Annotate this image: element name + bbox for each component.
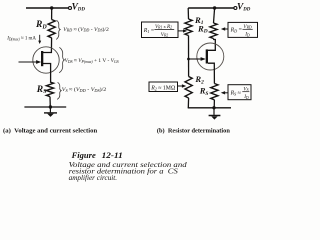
transistor Q2 source lead xyxy=(208,63,214,83)
label R1 xyxy=(194,15,204,26)
svg-text:RD: RD xyxy=(197,23,208,34)
figure caption title xyxy=(71,150,123,160)
svg-text:RS ≈: RS ≈ xyxy=(230,91,241,97)
transistor Q2 gate lead with arrow xyxy=(189,57,206,61)
wire top rail to RD (b) xyxy=(214,8,215,23)
formula box R2 xyxy=(149,82,178,92)
ground symbol (b) xyxy=(209,108,221,120)
node VDD terminal (b) xyxy=(234,7,237,10)
arrow box RD to resistor xyxy=(221,27,228,30)
svg-text:Figure: Figure xyxy=(71,150,96,160)
ground rail (a) xyxy=(24,106,66,108)
svg-text:12-11: 12-11 xyxy=(102,150,123,160)
wire R2 to bottom rail xyxy=(187,98,189,108)
formula box RD xyxy=(228,22,258,37)
arrow box R1 to resistor xyxy=(179,29,188,32)
transistor Q1 JFET circle xyxy=(33,47,59,73)
wire top rail (a) xyxy=(26,7,69,9)
label RS (b) xyxy=(199,86,209,97)
junction top rail (b) xyxy=(213,6,216,9)
node VDD terminal (a) xyxy=(69,7,72,10)
svg-text:RD =: RD = xyxy=(230,27,242,33)
label RD (b) xyxy=(197,23,208,34)
wire RD to drain xyxy=(43,38,52,53)
svg-text:RS: RS xyxy=(199,86,209,97)
junction on ground rail (a) xyxy=(49,105,52,108)
wire from top rail to RD xyxy=(51,8,53,20)
junction bottom rail (b) xyxy=(212,106,215,109)
svg-text:ID: ID xyxy=(243,94,249,100)
formula box R1 xyxy=(142,22,179,38)
resistor R2 xyxy=(185,77,192,99)
wire RS to ground rail xyxy=(49,97,51,107)
transistor Q2 JFET circle xyxy=(197,43,224,70)
svg-text:VDD: VDD xyxy=(237,2,251,12)
resistor RD (b) xyxy=(210,23,217,39)
svg-text:RD: RD xyxy=(35,20,47,30)
arrow box RS to resistor xyxy=(221,91,228,94)
label R2 xyxy=(194,74,204,85)
wire R1 to R2 xyxy=(188,36,190,77)
svg-text:ID(max) ≈ 1 mA: ID(max) ≈ 1 mA xyxy=(6,35,36,41)
svg-text:VS: VS xyxy=(243,86,248,92)
net label VDD (b) xyxy=(237,2,251,12)
svg-text:R2: R2 xyxy=(194,74,204,85)
svg-text:RS: RS xyxy=(36,85,47,95)
brace for VDS xyxy=(59,47,64,73)
resistor R1 xyxy=(185,19,192,36)
svg-text:(b) Resistor determination: (b) Resistor determination xyxy=(157,128,230,135)
transistor Q1 source lead xyxy=(43,64,51,83)
svg-text:VRD: VRD xyxy=(243,24,251,30)
svg-text:(a) Voltage and current selec: (a) Voltage and current selection xyxy=(3,128,97,135)
bottom rail (b) xyxy=(188,107,231,109)
value label VS = (VDD - VDS)/2 xyxy=(62,86,107,93)
arrow current ID direction xyxy=(38,35,41,44)
formula box RS xyxy=(228,85,251,100)
svg-text:VDD: VDD xyxy=(72,2,86,12)
figure caption body xyxy=(69,161,188,182)
brace for VS xyxy=(57,82,61,99)
value label VDS = VP(max) + 1 V - VGS xyxy=(65,58,119,64)
svg-text:VRD ≈ (VDD - VDS)/2: VRD ≈ (VDD - VDS)/2 xyxy=(63,26,109,33)
svg-text:ID: ID xyxy=(244,32,250,38)
transistor Q1 gate lead with arrow xyxy=(19,60,42,64)
junction gate on divider xyxy=(187,58,190,61)
resistor RS (b) xyxy=(211,84,218,100)
svg-text:R2 ≈ 1MΩ: R2 ≈ 1MΩ xyxy=(150,86,176,92)
label RS (a) xyxy=(36,85,47,95)
wire RS to bottom rail xyxy=(213,100,215,108)
svg-text:R1 =: R1 = xyxy=(143,28,154,34)
net label VDD (a) xyxy=(72,2,86,12)
caption (a) xyxy=(3,128,97,135)
transistor Q1 channel bar xyxy=(41,51,43,66)
resistor RS (a) xyxy=(46,82,53,97)
wire top rail (b) xyxy=(188,7,234,9)
arrow box R2 to resistor xyxy=(178,84,186,87)
svg-text:VDS ≈ VP(max) + 1 V - VGS: VDS ≈ VP(max) + 1 V - VGS xyxy=(65,58,119,64)
transistor Q2 channel bar xyxy=(206,49,208,63)
brace for VRD xyxy=(56,20,60,39)
label RD (a) xyxy=(35,20,47,30)
svg-text:VS ≈ (VDD - VDS)/2: VS ≈ (VDD - VDS)/2 xyxy=(62,86,107,93)
svg-text:VR2: VR2 xyxy=(161,32,168,38)
label ID(max) = 1 mA xyxy=(6,35,36,41)
wire top rail to R1 xyxy=(187,8,189,19)
caption (b) xyxy=(157,128,230,135)
resistor RD (a) xyxy=(48,20,55,38)
value label VRD = (VDD - VDS)/2 xyxy=(63,26,109,33)
wire RD to drain (b) with jog xyxy=(208,39,215,51)
svg-text:amplifier circuit.: amplifier circuit. xyxy=(69,174,118,182)
ground symbol (a) xyxy=(44,107,57,117)
junction on top rail (a) xyxy=(50,6,53,9)
